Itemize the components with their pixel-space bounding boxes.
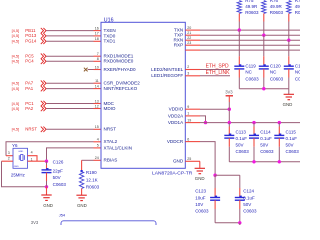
wire C123 bottom	[214, 200, 216, 209]
capacitor C114	[253, 123, 255, 127]
wire GND pin 25	[199, 161, 201, 168]
svg-text:C120: C120	[270, 63, 281, 68]
pin 15 stub	[94, 128, 102, 130]
wire column below R76	[263, 35, 265, 56]
svg-text:C123: C123	[195, 189, 206, 194]
svg-text:RXP: RXP	[174, 43, 183, 48]
wire C126 bottom	[46, 173, 48, 181]
op IC U16 body	[101, 22, 185, 168]
svg-text:10uF: 10uF	[195, 195, 206, 200]
svg-text:0.1uF: 0.1uF	[260, 136, 272, 141]
pin 20 TXN stub	[185, 29, 200, 31]
capacitor C123 10uF	[214, 175, 216, 188]
pin 6 VDDCR stub	[185, 141, 200, 143]
junction VDDIO/3V3	[228, 108, 231, 111]
svg-text:2: 2	[187, 65, 189, 69]
svg-text:0.1uF: 0.1uF	[236, 136, 248, 141]
wire gnd bus of C119 group	[239, 88, 288, 90]
svg-text:49.9R: 49.9R	[245, 4, 258, 9]
ground symbol pin25	[195, 167, 205, 169]
wire R77 lead	[288, 14, 290, 22]
svg-text:C0603: C0603	[236, 149, 250, 154]
pin 21 TXP stub	[185, 34, 200, 36]
wire XTAL2 to Y6 pin 3	[94, 141, 102, 143]
svg-text:C113: C113	[236, 129, 247, 134]
junction R77	[287, 39, 290, 42]
port PA2	[41, 106, 46, 111]
wire RXN row	[200, 39, 300, 41]
svg-text:25: 25	[187, 157, 191, 161]
svg-text:17: 17	[95, 32, 99, 36]
svg-text:24: 24	[95, 156, 99, 160]
wire PC4 to U16 pin 8	[46, 60, 93, 62]
svg-text:PA1: PA1	[25, 86, 33, 91]
junction	[252, 160, 255, 163]
wire VDD2A step	[200, 116, 206, 123]
wire PB11 to U16 pin 16	[46, 30, 93, 32]
svg-text:[4,5]: [4,5]	[12, 59, 20, 64]
junction C114 top	[252, 121, 255, 124]
pin 9 VDDIO stub	[185, 108, 200, 110]
svg-text:14: 14	[95, 84, 99, 88]
svg-text:50V: 50V	[286, 143, 294, 148]
wire PA1 to U16 pin 14	[46, 88, 93, 90]
resistor R190 12.1K	[81, 170, 83, 172]
svg-text:12.1K: 12.1K	[86, 177, 98, 182]
junction	[262, 87, 265, 90]
svg-text:C115: C115	[286, 129, 297, 134]
svg-text:C114: C114	[260, 129, 271, 134]
ground symbol R190	[76, 194, 86, 196]
wire RBIAS to R190	[94, 159, 102, 161]
svg-text:50V: 50V	[53, 175, 61, 180]
svg-text:10: 10	[95, 65, 99, 69]
wire gnd bus of C113 group	[229, 161, 300, 163]
svg-text:GND: GND	[173, 159, 184, 164]
svg-text:NC: NC	[245, 69, 252, 74]
svg-text:PG13: PG13	[25, 33, 37, 38]
svg-text:21: 21	[187, 31, 191, 35]
svg-text:C124: C124	[243, 189, 254, 194]
junction VDDCR node	[213, 174, 216, 177]
ground symbol C126	[41, 194, 51, 196]
svg-text:6: 6	[187, 137, 189, 141]
svg-text:C0603: C0603	[243, 209, 257, 214]
wire R75 lead	[238, 14, 240, 22]
pin 23 RXP stub	[185, 44, 200, 46]
wire PA2 to U16 pin 12	[46, 108, 93, 110]
port PB11	[41, 28, 46, 33]
port PA1	[41, 86, 46, 91]
svg-text:13: 13	[95, 99, 99, 103]
svg-text:18: 18	[95, 37, 99, 41]
svg-text:NC: NC	[295, 69, 300, 74]
svg-text:PA7: PA7	[25, 81, 33, 86]
svg-text:16: 16	[95, 26, 99, 30]
junction XTAL1/C126	[45, 160, 48, 163]
svg-text:[4,5]: [4,5]	[12, 127, 20, 132]
wire column below R75	[238, 30, 240, 56]
pin 12 stub	[94, 108, 102, 110]
connector J54	[61, 221, 156, 233]
svg-text:[4,5]: [4,5]	[12, 81, 20, 86]
resistor R75 49.9R	[237, 1, 241, 14]
svg-text:TXEN: TXEN	[104, 28, 116, 33]
svg-text:VDD1A: VDD1A	[168, 120, 184, 125]
pin 13 stub	[94, 103, 102, 105]
svg-text:RBIAS: RBIAS	[104, 158, 118, 163]
wire TXN row	[200, 29, 300, 31]
pin 16 stub	[94, 30, 102, 32]
svg-text:J54: J54	[59, 212, 66, 217]
svg-text:NRST: NRST	[25, 127, 37, 132]
svg-text:R77: R77	[295, 0, 300, 3]
svg-text:9: 9	[187, 105, 189, 109]
port PG14	[41, 39, 46, 44]
wire C124 bottom	[239, 200, 241, 209]
resistor R76 49.9R	[262, 1, 266, 14]
svg-text:TXD0: TXD0	[104, 33, 116, 38]
svg-text:4: 4	[97, 138, 99, 142]
wire PC5 to U16 pin 7	[46, 55, 93, 57]
capacitor C120 NC	[259, 65, 269, 67]
svg-text:RXD0/MODE0: RXD0/MODE0	[104, 59, 134, 64]
junction C115 top	[278, 121, 281, 124]
port PA7	[41, 81, 46, 86]
svg-text:7: 7	[97, 52, 99, 56]
svg-text:C0603: C0603	[260, 149, 274, 154]
svg-text:C119: C119	[245, 63, 256, 68]
svg-text:XTAL2: XTAL2	[104, 139, 118, 144]
wire ETH_LINK	[200, 75, 230, 77]
pin 3 LED1/REGOFF stub	[185, 75, 200, 77]
svg-text:GND: GND	[14, 166, 19, 168]
wire PA7 to U16 pin 11	[46, 82, 93, 84]
crystal glyph	[18, 155, 20, 160]
svg-text:C121: C121	[295, 63, 300, 68]
port PC1	[41, 101, 46, 106]
wire C121 bottom lead	[288, 69, 290, 78]
svg-text:ETH_LINK: ETH_LINK	[206, 70, 231, 76]
svg-text:MDIO: MDIO	[104, 106, 116, 111]
wire node bus	[215, 174, 240, 176]
svg-text:R0603: R0603	[295, 10, 300, 15]
svg-text:10V: 10V	[195, 202, 203, 207]
svg-text:PA2: PA2	[25, 106, 33, 111]
junction	[238, 221, 241, 224]
svg-text:LED2/NINTSEL: LED2/NINTSEL	[151, 67, 184, 72]
capacitor C121 NC	[284, 65, 294, 67]
wire Y6 pin1	[28, 160, 47, 162]
port NRST	[41, 127, 46, 132]
svg-text:NRST: NRST	[104, 127, 117, 132]
svg-text:[4,5]: [4,5]	[12, 39, 20, 44]
wire VDDIO	[200, 108, 229, 110]
wire bottom bus	[215, 222, 240, 224]
svg-text:PB11: PB11	[25, 28, 36, 33]
svg-text:C0603: C0603	[270, 77, 284, 82]
svg-text:C0603: C0603	[195, 209, 209, 214]
svg-text:VDD2A: VDD2A	[168, 113, 184, 118]
svg-text:22: 22	[187, 36, 191, 40]
pin 11 stub	[94, 82, 102, 84]
svg-text:15: 15	[95, 125, 99, 129]
wire 5th row	[185, 49, 200, 51]
wire C120 bottom lead	[263, 69, 265, 78]
svg-text:23: 23	[187, 41, 191, 45]
svg-text:LED1/REGOFF: LED1/REGOFF	[151, 73, 183, 78]
svg-text:3V3: 3V3	[225, 89, 233, 94]
svg-text:GND: GND	[18, 151, 23, 153]
svg-text:8: 8	[97, 57, 99, 61]
wire C119 bottom lead	[238, 69, 240, 78]
capacitor C119 NC	[234, 65, 244, 67]
wire RXP row	[200, 44, 300, 46]
svg-text:11: 11	[95, 79, 99, 83]
svg-text:49.9R: 49.9R	[270, 4, 283, 9]
wire Y6 pin4	[28, 156, 38, 162]
svg-text:NC: NC	[270, 69, 277, 74]
svg-text:3V3: 3V3	[31, 220, 39, 225]
svg-text:3: 3	[8, 151, 10, 155]
pin 7 stub	[94, 55, 102, 57]
svg-text:4: 4	[31, 151, 33, 155]
junction C126 bottom	[45, 185, 48, 188]
svg-text:2: 2	[8, 157, 10, 161]
svg-text:C126: C126	[53, 159, 64, 164]
svg-text:R76: R76	[270, 0, 279, 3]
svg-text:C0603: C0603	[245, 77, 259, 82]
svg-text:XTAL1/CLKIN: XTAL1/CLKIN	[104, 145, 133, 150]
capacitor C126 22pF	[46, 161, 48, 165]
pin 22 RXN stub	[185, 39, 200, 41]
svg-text:R0603: R0603	[270, 10, 284, 15]
svg-text:GND: GND	[43, 203, 53, 208]
svg-text:50V: 50V	[243, 202, 251, 207]
svg-text:LAN8720A-CP-TR: LAN8720A-CP-TR	[152, 170, 193, 176]
svg-text:R0603: R0603	[86, 185, 100, 190]
svg-text:19: 19	[187, 118, 191, 122]
svg-text:VDDIO: VDDIO	[169, 107, 184, 112]
wire NRST to U16 pin 15	[46, 128, 93, 130]
capacitor C113	[228, 123, 230, 127]
wire PC1 to U16 pin 13	[46, 103, 93, 105]
svg-text:0.1uF: 0.1uF	[286, 136, 298, 141]
junction	[278, 160, 281, 163]
svg-text:C0603: C0603	[295, 77, 300, 82]
svg-text:50V: 50V	[260, 143, 268, 148]
junction 3V3 bus	[228, 121, 231, 124]
wire VDD1A bus	[200, 122, 206, 124]
svg-text:0.1uF: 0.1uF	[243, 195, 255, 200]
junction R76	[262, 34, 265, 37]
svg-text:PG14: PG14	[25, 39, 37, 44]
wire PG13 to U16 pin 17	[46, 35, 93, 37]
wire R76 lead	[263, 14, 265, 22]
svg-text:3: 3	[187, 72, 189, 76]
ground symbol top right	[288, 89, 290, 95]
svg-text:[4,5]: [4,5]	[12, 28, 20, 33]
wire C114 bottom	[253, 138, 255, 147]
svg-text:[4,5]: [4,5]	[12, 86, 20, 91]
svg-text:TXD1: TXD1	[104, 39, 116, 44]
no-ERC X marker on RXER	[84, 68, 88, 72]
svg-text:22pF: 22pF	[53, 168, 64, 173]
port PC4	[41, 59, 46, 64]
capacitor C124 0.1uF	[239, 175, 241, 188]
pin 8 stub	[94, 60, 102, 62]
svg-text:C0603: C0603	[53, 182, 67, 187]
svg-text:RXER/PHYAD0: RXER/PHYAD0	[104, 67, 137, 72]
svg-text:R75: R75	[245, 0, 254, 3]
pin 1 VDD2A stub	[185, 115, 200, 117]
wire TXP row	[200, 34, 300, 36]
crystal Y6 box	[13, 148, 28, 168]
wire PG14 to U16 pin 18	[46, 40, 93, 42]
wire R190 bottom	[81, 189, 83, 196]
svg-text:20: 20	[187, 26, 191, 30]
pin 25 GND stub	[185, 160, 200, 162]
resistor R77 49.9R	[287, 1, 291, 14]
svg-text:PC4: PC4	[25, 59, 34, 64]
power port 3V3	[226, 95, 233, 97]
wire XTAL1/CLKIN to C126/Y6 node	[94, 147, 102, 149]
svg-text:[4,5]: [4,5]	[12, 33, 20, 38]
capacitor C115	[278, 123, 280, 127]
pin 18 stub	[94, 40, 102, 42]
pin 17 stub	[94, 35, 102, 37]
svg-text:U16: U16	[104, 17, 114, 23]
svg-text:5: 5	[97, 144, 99, 148]
svg-text:CSR_DV/MODE2: CSR_DV/MODE2	[104, 81, 141, 86]
svg-text:NINT/REFCLKO: NINT/REFCLKO	[104, 86, 138, 91]
svg-text:1: 1	[187, 112, 189, 116]
svg-text:GND: GND	[77, 203, 87, 208]
port PG13	[41, 33, 46, 38]
pin 2 LED2/NINTSEL stub	[185, 69, 200, 71]
svg-text:R190: R190	[86, 170, 97, 175]
svg-text:1: 1	[31, 157, 33, 161]
svg-text:C0603: C0603	[286, 149, 300, 154]
svg-text:25MHz: 25MHz	[11, 173, 25, 178]
svg-text:GND: GND	[195, 176, 205, 181]
wire Y6 pin2 to gnd	[2, 160, 14, 162]
wire column below R77	[288, 40, 290, 56]
junction VDD2A/VDD1A	[204, 121, 207, 124]
svg-text:VDDCR: VDDCR	[167, 139, 184, 144]
junction R75	[238, 28, 241, 31]
wire RXER	[88, 69, 94, 71]
wire VDDCR down	[200, 142, 215, 176]
pin 14 stub	[94, 88, 102, 90]
port PC5	[41, 54, 46, 59]
svg-text:GND: GND	[283, 102, 293, 107]
wire C115 bottom	[278, 138, 280, 147]
svg-text:12: 12	[95, 104, 99, 108]
svg-text:ETH_SPD: ETH_SPD	[206, 63, 229, 69]
svg-text:50V: 50V	[236, 143, 244, 148]
svg-text:Y6: Y6	[12, 143, 18, 148]
svg-text:[4,5]: [4,5]	[12, 106, 20, 111]
wire C113 bottom	[228, 138, 230, 147]
pin 19 VDD1A stub	[185, 122, 200, 124]
wire ETH_SPD	[200, 69, 230, 71]
svg-text:R0603: R0603	[245, 10, 259, 15]
svg-text:49.9R: 49.9R	[295, 4, 300, 9]
